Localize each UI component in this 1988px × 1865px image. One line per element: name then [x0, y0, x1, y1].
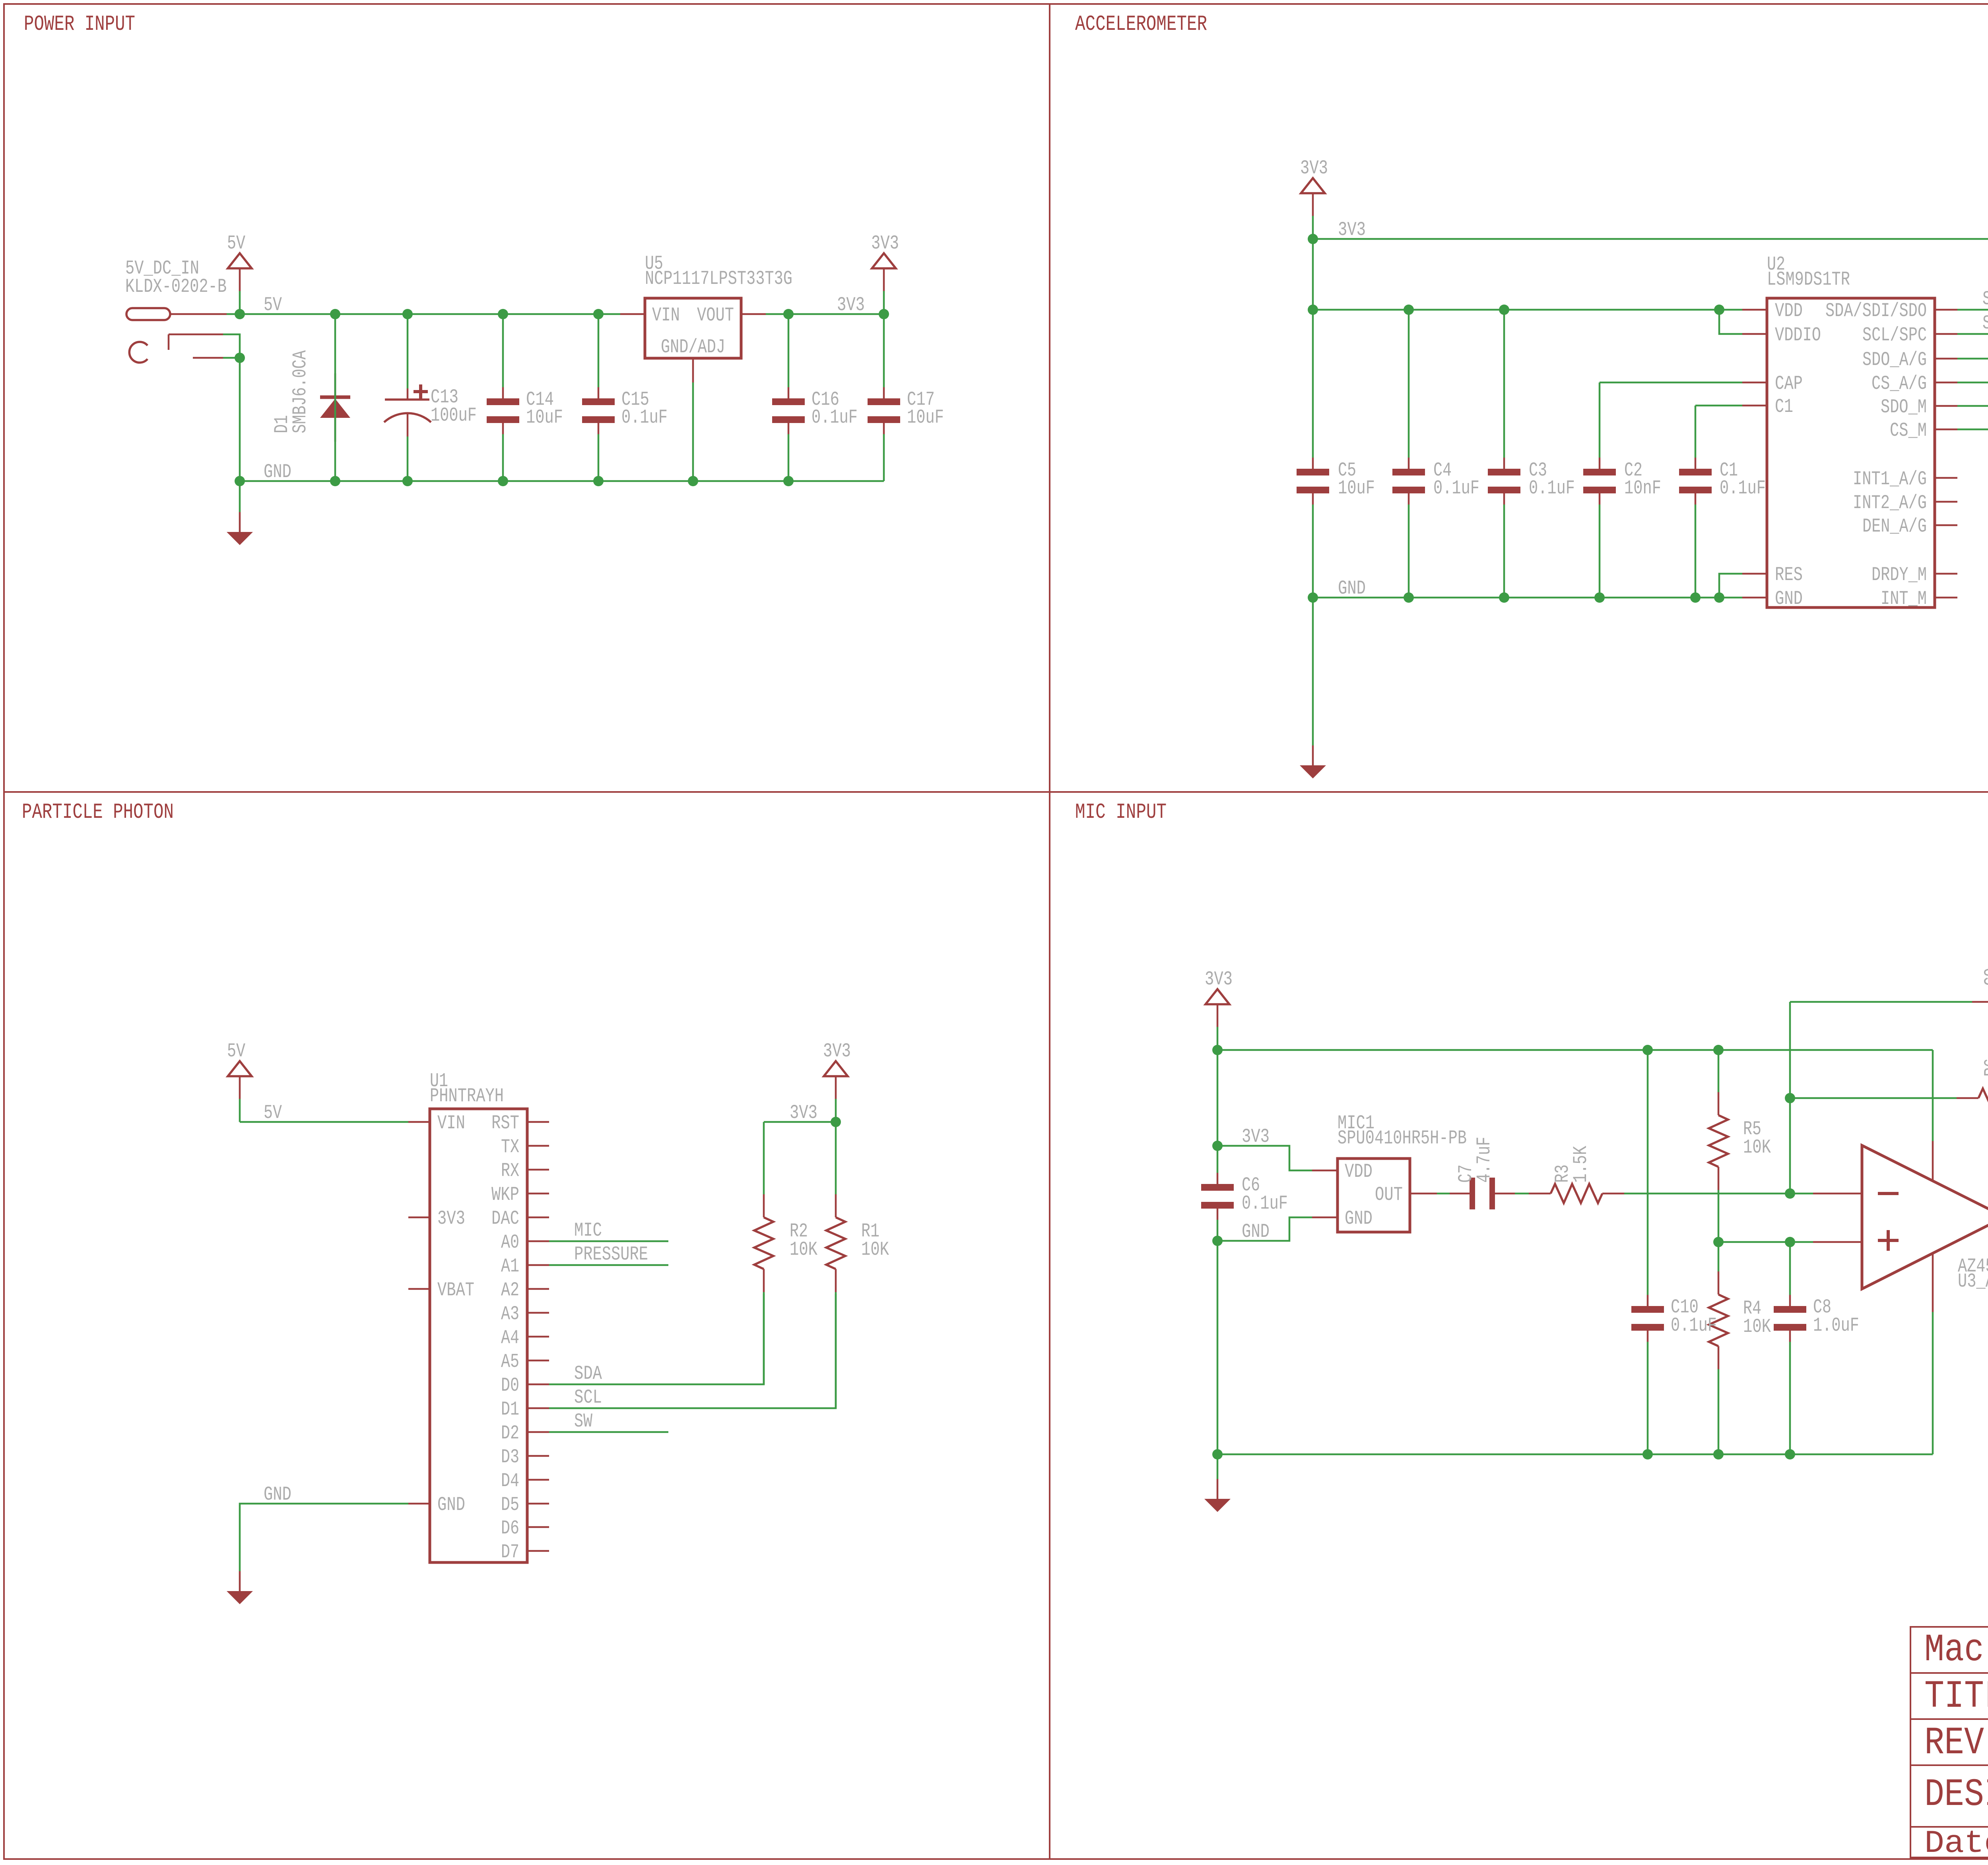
svg-text:INT2_A/G: INT2_A/G	[1853, 492, 1927, 514]
svg-text:1.0uF: 1.0uF	[1813, 1314, 1859, 1337]
svg-text:CS_A/G: CS_A/G	[1872, 373, 1927, 395]
svg-text:10nF: 10nF	[1624, 477, 1661, 499]
junction GND C14	[498, 476, 508, 486]
svg-text:A0: A0	[501, 1231, 519, 1254]
svg-text:SCL/SPC: SCL/SPC	[1862, 324, 1927, 346]
pin U2 INT_M	[1935, 597, 1957, 599]
svg-text:DRDY_M: DRDY_M	[1872, 564, 1927, 586]
junction plus R5/R4	[1713, 1237, 1724, 1247]
svg-text:REV: 1: REV: 1	[1924, 1721, 1988, 1765]
pin MIC1 OUT	[1410, 1193, 1437, 1195]
pin U2 SDO_A/G	[1935, 358, 1957, 360]
svg-text:SDA/SDI/SDO: SDA/SDI/SDO	[1825, 300, 1927, 322]
svg-text:GND: GND	[1338, 577, 1366, 600]
svg-text:TITLE: CompIoT: TITLE: CompIoT	[1924, 1675, 1988, 1719]
svg-text:DAC: DAC	[491, 1207, 519, 1230]
resistor R5	[1718, 1050, 1720, 1092]
pin U1 D7	[527, 1550, 549, 1552]
connector J1 ring contact	[193, 357, 223, 359]
svg-text:NCP1117LPST33T3G: NCP1117LPST33T3G	[645, 268, 792, 290]
pin U2 CAP	[1742, 382, 1767, 384]
junction GND C1 accel	[1690, 592, 1701, 603]
svg-text:10K: 10K	[790, 1238, 817, 1261]
wire SDO_M to bus	[1957, 405, 1988, 407]
connector J1 sleeve contact	[168, 334, 170, 350]
pin U1 D2	[527, 1431, 549, 1433]
svg-text:A3: A3	[501, 1303, 519, 1325]
junction VDD C3	[1499, 305, 1509, 315]
opamp minus sign	[1878, 1192, 1899, 1195]
svg-text:SW: SW	[574, 1410, 592, 1432]
svg-text:CAP: CAP	[1775, 373, 1803, 395]
wire RES return	[1719, 574, 1742, 598]
wire CAP pin to C2	[1600, 382, 1742, 384]
svg-text:SDA: SDA	[574, 1362, 602, 1385]
capacitor C13 polarized	[407, 314, 409, 388]
wire D1 SCL	[549, 1294, 836, 1408]
pin MIC1 GND	[1312, 1217, 1338, 1219]
svg-text:PRESSURE: PRESSURE	[574, 1243, 648, 1265]
svg-text:D3: D3	[501, 1446, 519, 1468]
pin U2 VDDIO	[1742, 333, 1767, 335]
capacitor C14	[502, 314, 504, 387]
svg-text:5V: 5V	[227, 1040, 245, 1062]
pin U2 SCL/SPC	[1935, 333, 1957, 335]
capacitor C6	[1217, 1146, 1219, 1173]
svg-text:OUT: OUT	[1375, 1184, 1403, 1206]
wire jack down to GND rail	[239, 358, 241, 481]
svg-text:R6: R6	[1981, 1058, 1988, 1077]
junction rail C10	[1642, 1045, 1653, 1055]
wire feedback left column	[1789, 1002, 1791, 1194]
pin U1 D0	[527, 1384, 549, 1386]
wire A0 MIC	[549, 1240, 668, 1242]
svg-text:DESIGNER: Parker Dillmann: DESIGNER: Parker Dillmann	[1924, 1773, 1988, 1817]
svg-text:MacroFab, Inc: MacroFab, Inc	[1924, 1628, 1988, 1672]
section divider horizontal left+mid	[4, 791, 1988, 793]
capacitor C16	[788, 314, 790, 387]
pin U1 D4	[527, 1479, 549, 1481]
junction 3V3 C16	[783, 309, 794, 319]
pin U1 A2	[527, 1288, 549, 1290]
capacitor C3	[1503, 310, 1505, 458]
svg-text:VDD: VDD	[1345, 1161, 1373, 1183]
svg-text:PHNTRAYH: PHNTRAYH	[430, 1085, 504, 1107]
junction GND C4 accel	[1404, 592, 1414, 603]
ground symbol mic	[1217, 1479, 1219, 1499]
svg-text:SDA: SDA	[1982, 288, 1988, 310]
pin U2 VDD	[1742, 309, 1767, 311]
wire 5V rail	[240, 313, 620, 315]
capacitor C8	[1789, 1242, 1791, 1295]
svg-text:3V3: 3V3	[790, 1102, 817, 1124]
svg-text:VIN: VIN	[437, 1112, 465, 1134]
svg-text:VDDIO: VDDIO	[1775, 324, 1821, 346]
wire D0 SDA	[549, 1294, 764, 1384]
junction bottom C10	[1642, 1449, 1653, 1459]
opamp V+ pin	[1932, 1050, 1934, 1141]
svg-text:DEN_A/G: DEN_A/G	[1862, 515, 1927, 538]
opamp U3_A triangle	[1862, 1145, 1988, 1289]
capacitor C9	[1790, 1001, 1972, 1003]
pin U1 RST	[527, 1121, 549, 1123]
svg-text:INT_M: INT_M	[1881, 588, 1927, 610]
pin U1 A5	[527, 1360, 549, 1362]
pin U1 DAC	[527, 1217, 549, 1219]
pin U2 GND	[1742, 597, 1767, 599]
junction VDD branch VDDIO	[1714, 305, 1724, 315]
junction GND C13	[402, 476, 413, 486]
pin U3_A plus	[1813, 1241, 1862, 1243]
pin U1 3V3	[408, 1217, 430, 1219]
pin U1 A0	[527, 1240, 549, 1242]
pin U2 CS_A/G	[1935, 382, 1957, 384]
svg-text:5V: 5V	[264, 1102, 282, 1124]
wire GND rail	[240, 480, 884, 482]
svg-text:10K: 10K	[1743, 1136, 1771, 1159]
capacitor C13 plus sign	[414, 384, 428, 399]
svg-text:RX: RX	[501, 1160, 519, 1182]
svg-text:C1: C1	[1775, 396, 1793, 418]
wire SDA accel	[1957, 309, 1988, 311]
wire GND stem accel	[1312, 598, 1314, 745]
wire SDO_A/G to bus	[1957, 358, 1988, 360]
junction GND C2 accel	[1594, 592, 1605, 603]
wire 3V3 column mic	[1217, 1050, 1219, 1146]
svg-text:SPU0410HR5H-PB: SPU0410HR5H-PB	[1338, 1127, 1467, 1149]
ic U1 PHOTON box	[430, 1109, 527, 1562]
pin U1 A1	[527, 1264, 549, 1266]
wire U5 GND to rail	[692, 382, 694, 481]
pin U2 SDA/SDI/SDO	[1935, 309, 1957, 311]
svg-text:3V3: 3V3	[1242, 1126, 1270, 1148]
pin U2 RES	[1742, 573, 1767, 575]
svg-text:D1: D1	[501, 1398, 519, 1421]
svg-text:4.7uF: 4.7uF	[1473, 1137, 1495, 1183]
pin U1 VBAT	[408, 1288, 430, 1290]
pin MIC1 VDD	[1312, 1170, 1338, 1172]
wire VDD branch mic	[1217, 1146, 1312, 1170]
wire 3V3 top rail accel	[1313, 239, 1988, 429]
svg-text:5V: 5V	[227, 232, 245, 254]
pin U1 A3	[527, 1312, 549, 1314]
wire 3V3 rail photon	[764, 1121, 836, 1123]
svg-text:RES: RES	[1775, 564, 1803, 586]
junction feedback R6 left	[1785, 1093, 1795, 1103]
mic MIC1 box	[1338, 1159, 1410, 1232]
svg-text:ACCELEROMETER: ACCELEROMETER	[1075, 12, 1207, 37]
svg-text:3V3: 3V3	[1338, 219, 1366, 241]
pin U1 WKP	[527, 1193, 549, 1195]
svg-text:A2: A2	[501, 1279, 519, 1301]
svg-text:TX: TX	[501, 1136, 519, 1158]
pin U5 VIN	[620, 313, 645, 315]
junction 3V3 pole accel	[1308, 234, 1318, 244]
resistor R6	[1790, 1097, 1957, 1099]
svg-text:MIC INPUT: MIC INPUT	[1075, 800, 1167, 825]
wire CS_M to bus	[1957, 429, 1988, 431]
svg-text:POWER INPUT: POWER INPUT	[24, 12, 135, 37]
pin U1 D1	[527, 1407, 549, 1409]
pin U1 D5	[527, 1503, 549, 1505]
section divider vertical left/mid	[1049, 4, 1050, 1859]
svg-text:10uF: 10uF	[526, 406, 563, 429]
pin U2 C1	[1742, 405, 1767, 407]
pin U2 SDO_M	[1935, 405, 1957, 407]
svg-text:C9: C9	[1981, 968, 1988, 986]
pin U5 VOUT	[741, 313, 766, 315]
diode D1 SMBJ6.0CA	[334, 373, 336, 481]
capacitor C4	[1408, 310, 1410, 458]
svg-text:WKP: WKP	[491, 1184, 519, 1206]
svg-text:D2: D2	[501, 1422, 519, 1444]
junction bottom C6 col	[1212, 1449, 1223, 1459]
svg-text:A1: A1	[501, 1255, 519, 1277]
svg-text:SDO_A/G: SDO_A/G	[1862, 349, 1927, 371]
svg-text:10K: 10K	[861, 1238, 889, 1261]
wire jack sleeve to GND column	[223, 334, 240, 358]
svg-text:SMBJ6.0CA: SMBJ6.0CA	[289, 350, 311, 433]
svg-text:D0: D0	[501, 1374, 519, 1397]
wire 3V3 rail from VOUT	[766, 313, 884, 315]
wire GND column mic	[1217, 1241, 1219, 1454]
wire CS_A/G to bus	[1957, 382, 1988, 384]
svg-text:3V3: 3V3	[871, 232, 899, 254]
junction GND C5 accel	[1308, 592, 1318, 603]
svg-text:RST: RST	[491, 1112, 519, 1134]
junction VDD C4	[1404, 305, 1414, 315]
wire GND stem mic	[1217, 1454, 1219, 1479]
pin U1 D6	[527, 1526, 549, 1528]
wire GND stem	[239, 481, 241, 512]
pin U2 INT2_A/G	[1935, 501, 1957, 503]
svg-text:SCL: SCL	[574, 1386, 602, 1409]
wire 3V3 column to VDD rail	[1312, 239, 1314, 310]
junction GND D1	[330, 476, 340, 486]
svg-text:1.5K: 1.5K	[1570, 1146, 1592, 1183]
connector J1 tip pin	[126, 308, 170, 320]
wire GND branch mic	[1217, 1217, 1312, 1241]
pin U2 DEN_A/G	[1935, 524, 1957, 526]
junction bottom R4	[1713, 1449, 1724, 1459]
svg-text:3V3: 3V3	[837, 294, 865, 316]
pin U1 RX	[527, 1169, 549, 1171]
ground symbol photon	[239, 1571, 241, 1591]
resistor R2	[763, 1122, 765, 1194]
svg-text:A4: A4	[501, 1327, 519, 1349]
junction minus feedback	[1785, 1188, 1795, 1199]
junction plus C8	[1785, 1237, 1795, 1247]
junction GND branch mic	[1212, 1236, 1223, 1246]
svg-text:KLDX-0202-B: KLDX-0202-B	[125, 276, 227, 298]
wire GND rail accel	[1313, 597, 1742, 599]
svg-text:LSM9DS1TR: LSM9DS1TR	[1767, 268, 1850, 291]
pin U2 DRDY_M	[1935, 573, 1957, 575]
junction jack ring	[235, 353, 245, 363]
svg-text:GND: GND	[437, 1494, 465, 1516]
svg-text:GND: GND	[1775, 588, 1803, 610]
svg-text:D4: D4	[501, 1470, 519, 1492]
svg-text:3V3: 3V3	[1300, 157, 1328, 179]
svg-text:D7: D7	[501, 1541, 519, 1563]
svg-text:VDD: VDD	[1775, 300, 1803, 322]
junction 3V3 pole photon	[831, 1117, 841, 1127]
svg-text:100uF: 100uF	[431, 404, 477, 427]
junction 5V rail C15	[593, 309, 604, 319]
svg-text:VIN: VIN	[652, 304, 680, 326]
svg-text:PARTICLE PHOTON: PARTICLE PHOTON	[22, 800, 174, 825]
junction 3V3 C17	[879, 309, 889, 319]
regulator U5 NCP1117 box	[645, 298, 741, 358]
svg-text:0.1uF: 0.1uF	[1433, 477, 1479, 499]
junction GND C16	[783, 476, 794, 486]
connector J1 sleeve hook	[129, 342, 148, 363]
pin U1 VIN	[408, 1121, 430, 1123]
svg-text:Date: 5/31/2017 1:35 PM: Date: 5/31/2017 1:35 PM	[1924, 1826, 1988, 1862]
svg-text:MIC: MIC	[574, 1219, 602, 1242]
wire jack ring to GND column	[223, 357, 240, 359]
svg-text:10K: 10K	[1743, 1316, 1771, 1338]
junction VDD C5	[1308, 305, 1318, 315]
capacitor C15	[598, 314, 600, 387]
pin U2 CS_M	[1935, 429, 1957, 431]
wire jack tip to 5V rail	[227, 313, 240, 315]
wire bottom rail mic	[1217, 1454, 1933, 1456]
svg-text:10uF: 10uF	[907, 406, 944, 429]
capacitor C5	[1312, 310, 1314, 458]
junction 5V pole	[235, 309, 245, 319]
opamp plus sign	[1878, 1230, 1899, 1251]
opamp V- pin	[1932, 1254, 1934, 1312]
capacitor C10	[1647, 1050, 1649, 1295]
capacitor C17	[883, 314, 885, 387]
junction GND U5	[688, 476, 698, 486]
junction GND C3 accel	[1499, 592, 1509, 603]
junction GND jack	[235, 476, 245, 486]
junction rail R5	[1713, 1045, 1724, 1055]
svg-text:INT1_A/G: INT1_A/G	[1853, 468, 1927, 490]
svg-text:SDO_M: SDO_M	[1881, 396, 1927, 418]
svg-text:0.1uF: 0.1uF	[621, 406, 668, 429]
wire SCL accel	[1957, 333, 1988, 335]
junction GND RES accel	[1714, 592, 1724, 603]
wire C1 pin to C1	[1695, 405, 1742, 407]
resistor R4	[1718, 1242, 1720, 1271]
ground symbol power	[239, 512, 241, 532]
wire VDD rail	[1313, 309, 1742, 311]
junction GND C15	[593, 476, 604, 486]
pin U2 INT1_A/G	[1935, 477, 1957, 479]
junction 3V3 pole mic	[1212, 1045, 1223, 1055]
ground symbol accel	[1312, 745, 1314, 765]
pin U1 GND	[408, 1503, 430, 1505]
junction 5V rail C14	[498, 309, 508, 319]
title block row lines	[1910, 1672, 1988, 1674]
svg-text:SCL: SCL	[1982, 312, 1988, 334]
svg-text:3V3: 3V3	[823, 1040, 851, 1062]
svg-text:VBAT: VBAT	[437, 1279, 474, 1301]
pin U5 GND/ADJ	[692, 358, 694, 382]
svg-text:0.1uF: 0.1uF	[1720, 477, 1766, 499]
svg-text:D6: D6	[501, 1517, 519, 1539]
svg-text:U3_A: U3_A	[1958, 1270, 1988, 1292]
capacitor C2	[1599, 382, 1601, 458]
capacitor C1	[1695, 406, 1697, 458]
junction 5V rail D1	[330, 309, 340, 319]
svg-text:GND/ADJ: GND/ADJ	[661, 336, 725, 358]
pin U3_A minus	[1813, 1193, 1862, 1195]
svg-text:3V3: 3V3	[1205, 968, 1233, 990]
wire plus row	[1718, 1241, 1813, 1243]
resistor R3	[1528, 1193, 1530, 1195]
svg-text:5V: 5V	[264, 294, 282, 316]
svg-text:3V3: 3V3	[437, 1207, 465, 1230]
resistor R1	[835, 1122, 837, 1194]
title block box	[1910, 1627, 1988, 1857]
svg-text:VOUT: VOUT	[697, 304, 734, 326]
svg-text:0.1uF: 0.1uF	[812, 406, 858, 429]
wire 3V3 top rail mic	[1217, 1049, 1933, 1051]
svg-text:GND: GND	[1242, 1221, 1270, 1243]
wire VDDIO branch	[1719, 310, 1742, 334]
wire GND photon	[240, 1504, 408, 1571]
junction 5V rail C13	[402, 309, 413, 319]
junction VDD branch mic	[1212, 1141, 1223, 1151]
wire 5V to VIN	[240, 1121, 408, 1123]
ic U2 LSM9DS1TR box	[1767, 298, 1935, 607]
svg-text:CS_M: CS_M	[1890, 419, 1927, 442]
svg-text:10uF: 10uF	[1338, 477, 1375, 499]
wire D2 SW	[549, 1431, 668, 1433]
pin U1 A4	[527, 1336, 549, 1338]
svg-text:0.1uF: 0.1uF	[1671, 1314, 1717, 1337]
svg-text:D5: D5	[501, 1494, 519, 1516]
svg-text:A5: A5	[501, 1351, 519, 1373]
junction bottom C8	[1785, 1449, 1795, 1459]
svg-text:GND: GND	[264, 461, 291, 483]
svg-text:GND: GND	[264, 1483, 291, 1506]
svg-text:GND: GND	[1345, 1207, 1373, 1230]
svg-text:0.1uF: 0.1uF	[1529, 477, 1575, 499]
capacitor C7	[1437, 1193, 1450, 1195]
wire A1 PRESSURE	[549, 1264, 668, 1266]
pin U1 TX	[527, 1145, 549, 1147]
pin U1 D3	[527, 1455, 549, 1457]
svg-text:0.1uF: 0.1uF	[1242, 1192, 1288, 1215]
